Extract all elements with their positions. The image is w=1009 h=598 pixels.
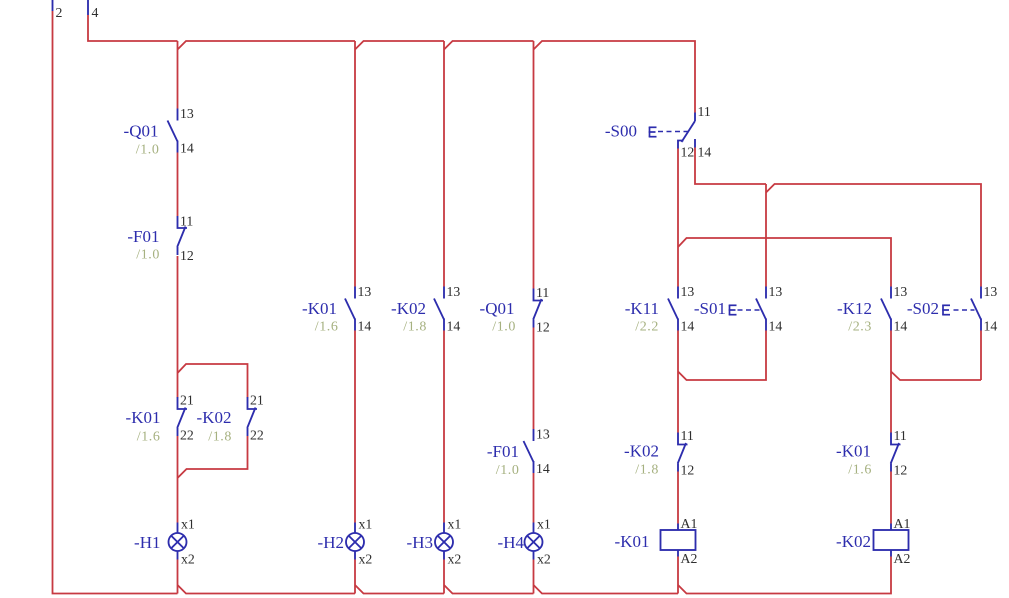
svg-text:/1.0: /1.0 bbox=[496, 463, 520, 478]
svg-text:14: 14 bbox=[536, 461, 550, 476]
contact -F01 aux top stub bbox=[533, 429, 535, 441]
lamp -H1 cross bbox=[171, 536, 184, 549]
wire branch D drop to Q01 NC contact bbox=[533, 41, 535, 289]
contact -K01 2122 top stub and bar bbox=[178, 397, 188, 409]
lamp -H2 top stub bbox=[354, 523, 356, 534]
svg-text:13: 13 bbox=[447, 284, 461, 299]
wire bottom rail jog at H4 branch bbox=[534, 585, 679, 594]
actuator E of S00 bbox=[649, 127, 657, 136]
svg-text:/2.3: /2.3 bbox=[848, 320, 872, 335]
wire bottom rail jog at coil K01 branch to K02 corner up bbox=[678, 557, 891, 594]
svg-text:14: 14 bbox=[698, 145, 712, 160]
svg-text:13: 13 bbox=[984, 284, 998, 299]
contact -K01 2122 bottom stub bbox=[177, 428, 179, 436]
wire branch A between F01 and K01 NC pair bbox=[177, 256, 179, 398]
lamp -H1 top stub bbox=[177, 523, 179, 534]
contact -K02 2122 top stub and bar bbox=[248, 397, 258, 409]
coil -K02 bottom stub bbox=[890, 550, 892, 557]
svg-text:-H1: -H1 bbox=[134, 533, 160, 552]
wire coil K01 A2 down to bottom rail bbox=[677, 557, 679, 594]
svg-text:11: 11 bbox=[894, 428, 907, 443]
wire top rail segment with jog at node x533 bbox=[444, 41, 534, 50]
svg-text:2: 2 bbox=[56, 5, 63, 20]
wire K12 14 down to K01 NC contact bbox=[890, 331, 892, 433]
svg-text:13: 13 bbox=[180, 106, 194, 121]
wire top rail segment with jog at node x444 bbox=[355, 41, 444, 50]
wire K01 NC 12 down to coil K02 bbox=[890, 472, 892, 524]
svg-text:x2: x2 bbox=[537, 552, 551, 567]
svg-text:-S00: -S00 bbox=[605, 122, 637, 141]
svg-text:14: 14 bbox=[984, 319, 998, 334]
wire branch B lamp H2 to bottom rail bbox=[354, 560, 356, 594]
contact -S02 top stub bbox=[980, 287, 982, 299]
svg-text:x1: x1 bbox=[448, 517, 462, 532]
terminal stub 4 bbox=[87, 0, 89, 15]
svg-text:12: 12 bbox=[180, 248, 194, 263]
svg-text:11: 11 bbox=[536, 285, 549, 300]
wire L4 feed vertical to top rail corner bbox=[88, 15, 178, 41]
coil -K01 rectangle bbox=[661, 530, 696, 550]
contact -Q01 blade bbox=[168, 121, 178, 142]
svg-text:-S02: -S02 bbox=[907, 299, 939, 318]
contact -K11 blade bbox=[668, 299, 678, 320]
contact -K01 blade bbox=[345, 299, 355, 320]
svg-text:/1.0: /1.0 bbox=[136, 248, 160, 263]
contact -K02 bottom stub bbox=[443, 319, 445, 331]
svg-text:11: 11 bbox=[698, 104, 711, 119]
wire branch A drop from top rail to Q01 bbox=[177, 41, 179, 109]
svg-text:21: 21 bbox=[250, 393, 264, 408]
svg-text:13: 13 bbox=[358, 284, 372, 299]
contact -K02 2122 blade bbox=[247, 408, 255, 429]
S00 actuator dashed link bbox=[658, 131, 688, 133]
contact -K02 1112 top stub and bar bbox=[678, 433, 688, 445]
wire bottom rail jog at H1 branch bbox=[178, 585, 356, 594]
wire S01 branch drop to contact bbox=[765, 184, 767, 287]
svg-text:14: 14 bbox=[681, 319, 695, 334]
contact -K11 bottom stub bbox=[677, 319, 679, 331]
contact -K12 top stub bbox=[890, 287, 892, 299]
wire K12 14 jog rail right to S02 branch bbox=[891, 372, 981, 381]
contact -K01 1112 top stub and bar bbox=[891, 433, 901, 445]
contact -F01 blade bbox=[177, 227, 185, 248]
contact -S01 top stub bbox=[765, 287, 767, 299]
svg-text:-H3: -H3 bbox=[407, 533, 433, 552]
svg-text:x2: x2 bbox=[359, 552, 373, 567]
lamp -H4 top stub bbox=[533, 523, 535, 534]
svg-text:-Q01: -Q01 bbox=[124, 122, 159, 141]
svg-text:13: 13 bbox=[769, 284, 783, 299]
svg-text:-K02: -K02 bbox=[197, 408, 232, 427]
wire parallel branch bottom rail from K02 22 bbox=[178, 436, 248, 478]
contact -Q01 top stub bbox=[177, 109, 179, 121]
wire branch C drop to K02 contact bbox=[443, 41, 445, 287]
svg-text:/1.6: /1.6 bbox=[137, 430, 161, 445]
wire top rail segment to S00 branch corner bbox=[534, 41, 696, 113]
contact -K01 1112 bottom stub bbox=[890, 464, 892, 472]
wire S02 14 down to parallel rail corner bbox=[980, 331, 982, 381]
svg-text:22: 22 bbox=[250, 428, 264, 443]
lamp -H2 circle bbox=[346, 533, 364, 551]
svg-text:A1: A1 bbox=[894, 516, 911, 531]
svg-text:x1: x1 bbox=[181, 517, 195, 532]
svg-text:/1.8: /1.8 bbox=[208, 430, 232, 445]
svg-text:/1.6: /1.6 bbox=[848, 463, 872, 478]
contact -Q01 aux top stub and bar bbox=[534, 289, 544, 301]
svg-text:13: 13 bbox=[894, 284, 908, 299]
contact -K12 blade bbox=[881, 299, 891, 320]
actuator E of S02 bbox=[942, 305, 950, 314]
svg-text:-Q01: -Q01 bbox=[480, 299, 515, 318]
S01 actuator dashed link bbox=[738, 309, 760, 311]
svg-text:22: 22 bbox=[180, 428, 194, 443]
svg-text:21: 21 bbox=[180, 393, 194, 408]
wire K11 14 down to K02 NC contact bbox=[677, 331, 679, 433]
wire bottom rail jog at H3 branch bbox=[444, 585, 534, 594]
lamp -H4 bottom stub bbox=[533, 551, 535, 560]
svg-text:/1.6: /1.6 bbox=[315, 320, 339, 335]
lamp -H3 circle bbox=[435, 533, 453, 551]
wire top rail segment with jog at node x355 bbox=[178, 41, 356, 50]
svg-text:12: 12 bbox=[894, 463, 908, 478]
S00 contact 14 stub bbox=[694, 139, 696, 148]
svg-text:14: 14 bbox=[358, 319, 372, 334]
svg-text:-K01: -K01 bbox=[126, 408, 161, 427]
contact -Q01 aux blade bbox=[533, 299, 541, 320]
lamp -H4 cross bbox=[527, 536, 540, 549]
wire S01 14 down and rail left to K11 branch bbox=[678, 331, 766, 381]
contact -K01 2122 blade bbox=[177, 408, 185, 429]
S00 top stub bbox=[694, 113, 696, 122]
svg-text:A2: A2 bbox=[681, 551, 698, 566]
svg-text:-K01: -K01 bbox=[302, 299, 337, 318]
wire branch A lamp H1 to bottom rail bbox=[177, 560, 179, 594]
svg-text:-K02: -K02 bbox=[391, 299, 426, 318]
svg-text:14: 14 bbox=[180, 141, 194, 156]
svg-text:12: 12 bbox=[681, 145, 695, 160]
svg-text:-F01: -F01 bbox=[127, 227, 159, 246]
svg-text:x2: x2 bbox=[448, 552, 462, 567]
contact -Q01 bottom stub bbox=[177, 141, 179, 153]
contact -K02 2122 bottom stub bbox=[247, 428, 249, 436]
lamp -H4 circle bbox=[525, 533, 543, 551]
lamp -H2 bottom stub bbox=[354, 551, 356, 560]
wire S00 contact 14 down and rail to S01 node bbox=[695, 148, 766, 185]
svg-text:-K02: -K02 bbox=[836, 532, 871, 551]
svg-text:-F01: -F01 bbox=[487, 442, 519, 461]
wire parallel branch top rail to K02 21-22 bbox=[178, 364, 248, 398]
lamp -H1 circle bbox=[169, 533, 187, 551]
svg-text:11: 11 bbox=[180, 214, 193, 229]
svg-text:x2: x2 bbox=[181, 552, 195, 567]
svg-text:x1: x1 bbox=[359, 517, 373, 532]
contact -S01 blade bbox=[756, 299, 766, 320]
contact -K02 1112 blade bbox=[678, 443, 686, 464]
wire branch B K01 to lamp H2 bbox=[354, 331, 356, 523]
S00 blade bbox=[682, 121, 696, 142]
wire branch C lamp H3 to bottom rail bbox=[443, 560, 445, 594]
svg-text:-H4: -H4 bbox=[498, 533, 525, 552]
lamp -H3 bottom stub bbox=[443, 551, 445, 560]
svg-text:4: 4 bbox=[92, 5, 99, 20]
svg-text:-K01: -K01 bbox=[836, 442, 871, 461]
contact -S01 bottom stub bbox=[765, 319, 767, 331]
wire branch D F01 to lamp H4 bbox=[533, 473, 535, 523]
svg-text:11: 11 bbox=[681, 428, 694, 443]
svg-text:/1.8: /1.8 bbox=[403, 320, 427, 335]
contact -K02 1112 bottom stub bbox=[677, 464, 679, 472]
contact -S02 blade bbox=[971, 299, 981, 320]
svg-text:/2.2: /2.2 bbox=[635, 320, 659, 335]
svg-text:-K01: -K01 bbox=[615, 532, 650, 551]
contact -F01 top stub and bar bbox=[178, 216, 188, 228]
coil -K02 rectangle bbox=[874, 530, 909, 550]
wire bottom rail jog at H2 branch bbox=[355, 585, 444, 594]
svg-text:14: 14 bbox=[894, 319, 908, 334]
svg-text:/1.0: /1.0 bbox=[492, 320, 516, 335]
wire S00 contact 12 down to K11 contact bbox=[677, 149, 679, 287]
contact -Q01 aux bottom stub bbox=[533, 320, 535, 328]
svg-text:/1.0: /1.0 bbox=[136, 143, 160, 158]
lamp -H3 top stub bbox=[443, 523, 445, 534]
lamp -H3 cross bbox=[438, 536, 451, 549]
contact -K01 top stub bbox=[354, 287, 356, 299]
actuator E of S01 bbox=[729, 305, 737, 314]
svg-text:14: 14 bbox=[447, 319, 461, 334]
svg-text:x1: x1 bbox=[537, 517, 551, 532]
lamp -H2 cross bbox=[349, 536, 362, 549]
svg-text:-K12: -K12 bbox=[837, 299, 872, 318]
wire rail from S01 node jog to S02 corner down to S02 contact bbox=[766, 184, 981, 287]
coil -K01 top stub bbox=[677, 524, 679, 531]
contact -F01 aux blade bbox=[524, 441, 534, 462]
contact -K01 1112 blade bbox=[891, 443, 899, 464]
svg-text:-K02: -K02 bbox=[624, 442, 659, 461]
svg-text:13: 13 bbox=[536, 427, 550, 442]
wire branch A from K01 22 to lamp H1 bbox=[177, 436, 179, 523]
svg-text:/1.8: /1.8 bbox=[635, 463, 659, 478]
terminal stub 2 bbox=[52, 0, 54, 11]
wire K02 NC 12 down to coil K01 bbox=[677, 472, 679, 524]
svg-text:12: 12 bbox=[681, 463, 695, 478]
svg-text:-S01: -S01 bbox=[694, 299, 726, 318]
contact -K02 blade bbox=[434, 299, 444, 320]
lamp -H1 bottom stub bbox=[177, 551, 179, 560]
contact -F01 bottom stub bbox=[177, 247, 179, 255]
wire branch D lamp H4 to bottom rail bbox=[533, 560, 535, 594]
svg-text:A1: A1 bbox=[681, 516, 698, 531]
contact -S02 bottom stub bbox=[980, 319, 982, 331]
wire branch A between Q01 and F01 bbox=[177, 153, 179, 217]
wire branch C K02 to lamp H3 bbox=[443, 331, 445, 523]
svg-text:-H2: -H2 bbox=[318, 533, 344, 552]
wire L2 phase rail left vertical and bottom-left corner bbox=[53, 11, 178, 594]
coil -K01 bottom stub bbox=[677, 550, 679, 557]
S00 contact 12 bar and stub bbox=[678, 141, 684, 149]
svg-text:A2: A2 bbox=[894, 551, 911, 566]
S02 actuator dashed link bbox=[954, 309, 975, 311]
contact -K12 bottom stub bbox=[890, 319, 892, 331]
wire node x678 jog rail to K12 corner down to K12 contact bbox=[678, 238, 891, 287]
svg-text:13: 13 bbox=[681, 284, 695, 299]
wire branch D Q01 to F01 bbox=[533, 328, 535, 430]
contact -K11 top stub bbox=[677, 287, 679, 299]
contact -K02 top stub bbox=[443, 287, 445, 299]
contact -F01 aux bottom stub bbox=[533, 461, 535, 473]
svg-text:-K11: -K11 bbox=[625, 299, 659, 318]
svg-text:12: 12 bbox=[536, 320, 550, 335]
wire branch B drop to K01 contact bbox=[354, 41, 356, 287]
svg-text:14: 14 bbox=[769, 319, 783, 334]
contact -K01 bottom stub bbox=[354, 319, 356, 331]
coil -K02 top stub bbox=[890, 524, 892, 531]
